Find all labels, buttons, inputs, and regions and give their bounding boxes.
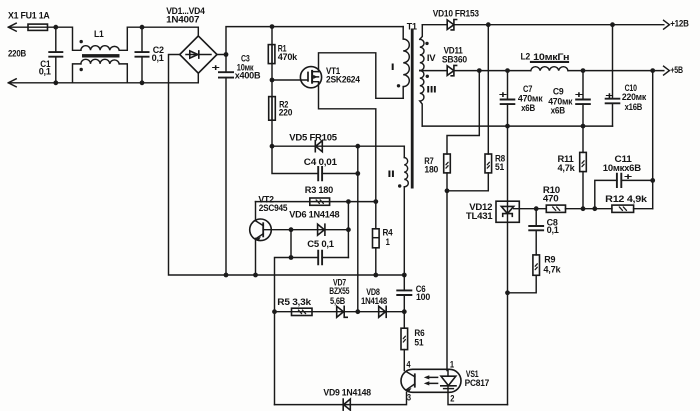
- label X1 FU1 1A: [8, 11, 50, 22]
- svg-text:4: 4: [406, 360, 411, 371]
- resistor R9: [508, 255, 540, 293]
- wire TL431 anode: [507, 222, 509, 404]
- wire pin1 riser: [446, 191, 448, 371]
- diode VD9: [343, 399, 350, 410]
- svg-text:220: 220: [279, 107, 292, 118]
- zener diode VD7: [337, 306, 348, 317]
- label C11 10mkx6V: [603, 154, 641, 174]
- resistor R3: [310, 198, 330, 205]
- svg-text:1N4007: 1N4007: [166, 15, 199, 26]
- junction R4 bottom: [373, 273, 378, 278]
- svg-text:R12 4,9k: R12 4,9k: [605, 194, 648, 205]
- svg-text:x6В: x6В: [551, 106, 566, 117]
- transformer T1 winding I: [403, 27, 409, 99]
- label winding I: [391, 62, 395, 73]
- label VD11 SB360: [442, 46, 467, 66]
- junction R3 right: [346, 199, 351, 204]
- svg-text:PC817: PC817: [465, 378, 490, 389]
- junction R11 bottom: [581, 206, 586, 211]
- capacitor C9: [548, 71, 591, 127]
- wire TL431 ref: [514, 208, 547, 210]
- junction C6 R6 node: [402, 309, 407, 314]
- svg-text:+: +: [624, 171, 633, 182]
- junction VD7 cathode: [355, 309, 360, 314]
- core L1: [82, 54, 120, 57]
- resistor R5: [292, 308, 313, 315]
- resistor R4: [373, 227, 394, 275]
- diode VD5: [315, 141, 322, 152]
- wire top input rail: [8, 27, 81, 50]
- junction VD5 left: [270, 144, 275, 149]
- svg-text:4,7k: 4,7k: [543, 265, 561, 276]
- core L2: [530, 61, 569, 63]
- svg-text:x400В: x400В: [235, 70, 261, 81]
- junction C11 left riser: [592, 206, 597, 211]
- wire +5V rail right: [568, 70, 664, 72]
- svg-text:+: +: [605, 91, 614, 102]
- junction rail winding II: [402, 273, 407, 278]
- transformer T1 winding II: [404, 146, 408, 275]
- wire C5 to bottom line: [275, 258, 292, 405]
- label C8 0,1: [547, 218, 560, 236]
- svg-text:180: 180: [424, 165, 438, 176]
- junction C8 ref: [534, 206, 539, 211]
- svg-text:VD9 1N4148: VD9 1N4148: [323, 388, 371, 399]
- capacitor C8: [528, 209, 544, 255]
- svg-text:VD5 FR105: VD5 FR105: [289, 132, 337, 143]
- label R10 470: [543, 185, 560, 205]
- svg-text:x6В: x6В: [521, 103, 535, 114]
- svg-text:+5В: +5В: [670, 65, 683, 76]
- wire L1 upper to C2: [119, 27, 198, 50]
- label 220V: [8, 49, 26, 60]
- label VD1...VD4 1N4007: [166, 6, 205, 26]
- junction base node: [289, 227, 294, 232]
- resistor R11: [580, 126, 587, 209]
- junction VD5 right: [355, 144, 360, 149]
- bridge rectifier VD1-VD4: [180, 36, 217, 73]
- junction C5 left: [289, 255, 294, 260]
- svg-text:2SC945: 2SC945: [259, 203, 288, 214]
- capacitor C10: [605, 25, 647, 126]
- svg-text:51: 51: [414, 338, 424, 349]
- label L2 10mkGn: [521, 52, 570, 63]
- wire feedback vertical: [357, 146, 359, 312]
- svg-text:0,1: 0,1: [152, 53, 165, 64]
- svg-text:3: 3: [407, 393, 411, 404]
- capacitor C3: [212, 53, 261, 275]
- svg-text:51: 51: [495, 162, 505, 173]
- label VD6 1N4148: [289, 210, 340, 221]
- core T1: [411, 29, 414, 189]
- label VD8 1N4148: [361, 287, 388, 307]
- svg-text:IV: IV: [427, 53, 436, 64]
- junction VD6 cathode: [346, 227, 351, 232]
- wire gate: [272, 79, 307, 81]
- connector arrow +12V: [664, 18, 689, 29]
- svg-text:+: +: [575, 90, 584, 101]
- transistor VT2: [250, 194, 288, 275]
- junction C4 right: [355, 171, 360, 176]
- polarity dot winding II: [398, 184, 401, 187]
- wire VT2 base line: [263, 229, 348, 231]
- svg-text:1: 1: [450, 360, 455, 371]
- junction VD11 output: [477, 68, 482, 73]
- svg-text:C5 0,1: C5 0,1: [307, 239, 334, 250]
- svg-text:L2: L2: [521, 52, 531, 63]
- label winding IV: [427, 53, 436, 64]
- junction R9 anode line: [505, 290, 510, 295]
- connector arrow +5V: [664, 65, 684, 76]
- svg-text:X1 FU1 1A: X1 FU1 1A: [8, 11, 50, 22]
- label pin 1: [450, 360, 455, 371]
- junction +12V R8: [486, 22, 491, 27]
- svg-text:VD10 FR153: VD10 FR153: [433, 8, 479, 19]
- junction C9 ground: [581, 124, 586, 129]
- capacitor C5: [291, 230, 348, 266]
- svg-text:5,6В: 5,6В: [330, 296, 345, 307]
- transformer T1 winding IV: [420, 25, 424, 71]
- junction C11 right: [650, 178, 655, 183]
- connector X1 arrow bottom: [8, 79, 16, 87]
- wire R5 VD7 VD8 line: [275, 311, 405, 313]
- polarity dot winding I: [397, 84, 400, 87]
- label pin 4: [406, 360, 411, 371]
- svg-text:II: II: [388, 169, 396, 180]
- svg-text:VD6 1N4148: VD6 1N4148: [289, 210, 340, 221]
- junction C2 top: [140, 25, 145, 30]
- label VD10 FR153: [433, 8, 479, 19]
- svg-text:0,1: 0,1: [547, 225, 560, 236]
- junction C3 bottom rail: [224, 273, 229, 278]
- junction R4 line: [373, 199, 378, 204]
- svg-text:4,7k: 4,7k: [558, 163, 576, 174]
- svg-text:470: 470: [543, 194, 559, 205]
- wire R3 line: [256, 201, 376, 203]
- label R5 3,3k: [277, 297, 311, 308]
- svg-text:470k: 470k: [278, 52, 298, 63]
- connector X1 arrow top: [8, 23, 16, 31]
- polarity dot L1 upper: [80, 40, 83, 43]
- resistor R6: [401, 312, 424, 371]
- svg-text:L1: L1: [94, 29, 104, 40]
- polarity dot L1 lower: [80, 68, 83, 71]
- svg-text:2SK2624: 2SK2624: [326, 75, 361, 86]
- wire VT1 source: [319, 82, 376, 229]
- svg-text:+: +: [499, 90, 508, 101]
- inductor L1 lower winding: [73, 59, 128, 83]
- wire bridge minus and primary ground rail: [169, 55, 405, 276]
- label winding II: [388, 169, 396, 180]
- junction C9 top: [581, 68, 586, 73]
- junction R7 R8 pin1: [445, 188, 450, 193]
- svg-text:1: 1: [386, 237, 391, 248]
- svg-text:+12В: +12В: [670, 18, 689, 29]
- wire VD9 bottom line: [275, 392, 407, 404]
- resistor R7: [444, 71, 480, 191]
- fuse FU1: [28, 24, 48, 30]
- label R12 4,9k: [605, 194, 648, 205]
- junction +12V C10: [610, 22, 615, 27]
- resistor R12: [612, 205, 653, 212]
- junction C7 top: [505, 68, 510, 73]
- wire secondary ground rail: [422, 125, 612, 127]
- label VD7 BZX55 5,6V: [329, 277, 350, 307]
- resistor R1: [268, 27, 298, 80]
- svg-text:+: +: [212, 63, 221, 74]
- label pin 3: [407, 393, 411, 404]
- svg-text:10мкx6В: 10мкx6В: [603, 163, 641, 174]
- svg-text:III: III: [426, 84, 437, 95]
- junction gate node: [270, 78, 275, 83]
- label VD12 TL431: [466, 202, 493, 222]
- label R11 4,7k: [558, 154, 576, 174]
- inductor L1 upper winding: [81, 46, 119, 51]
- diode VD10: [447, 20, 456, 30]
- label T1: [407, 21, 418, 32]
- capacitor C7: [499, 71, 543, 127]
- svg-text:1N4148: 1N4148: [361, 296, 388, 307]
- wire TL431 cathode: [507, 126, 509, 201]
- wire +5V rail left: [420, 70, 531, 72]
- label R7 180: [424, 156, 438, 176]
- label VD5 FR105: [289, 132, 337, 143]
- svg-text:2: 2: [450, 393, 454, 404]
- inductor L2: [531, 67, 568, 71]
- label VD9 1N4148: [323, 388, 371, 399]
- label R9 4,7k: [543, 255, 561, 276]
- svg-text:100: 100: [416, 292, 430, 303]
- wire pin2 to TL431 anode: [448, 392, 508, 404]
- wire R3 to C5 vertical: [347, 202, 349, 258]
- optocoupler VS1 PC817: [401, 369, 489, 393]
- wire +12V rail: [422, 24, 664, 26]
- svg-text:R3 180: R3 180: [305, 185, 333, 196]
- svg-text:0,1: 0,1: [39, 66, 52, 77]
- polarity dot winding III: [426, 75, 429, 78]
- svg-text:220В: 220В: [8, 49, 26, 60]
- wire R12 C11 to +5V: [652, 71, 654, 209]
- svg-text:C4 0,01: C4 0,01: [304, 157, 338, 168]
- capacitor C2: [135, 27, 165, 83]
- transistor VT1: [300, 66, 360, 88]
- svg-text:SB360: SB360: [442, 54, 467, 65]
- junction R1 top: [270, 24, 275, 29]
- label R8 51: [495, 154, 506, 173]
- capacitor C1: [39, 27, 64, 83]
- capacitor C4: [272, 146, 358, 181]
- diode VD11: [447, 65, 456, 75]
- junction bridge output: [224, 52, 229, 57]
- label winding III: [426, 84, 437, 95]
- wire VD5 line: [272, 145, 404, 147]
- junction C7 ground: [505, 124, 510, 129]
- label R3 180: [305, 185, 333, 196]
- junction VT2 emitter rail: [253, 273, 258, 278]
- diode VD8: [379, 306, 387, 317]
- junction C1 bottom: [53, 80, 58, 85]
- junction C2 bottom: [140, 80, 145, 85]
- svg-text:R5 3,3k: R5 3,3k: [277, 297, 311, 308]
- resistor R8: [447, 25, 492, 191]
- resistor R2: [269, 80, 292, 146]
- transformer T1 winding III: [420, 71, 424, 127]
- resistor R10: [546, 205, 612, 212]
- polarity dot winding IV: [425, 42, 428, 45]
- diode VD6: [318, 224, 325, 235]
- wire bottom input rail: [8, 73, 198, 83]
- svg-text:TL431: TL431: [466, 211, 493, 222]
- label L1: [94, 29, 104, 40]
- junction C1 top: [53, 25, 58, 30]
- wire VT1 drain to winding I: [319, 53, 404, 99]
- svg-text:x16В: x16В: [625, 102, 643, 113]
- wire bridge plus to top rail: [217, 27, 403, 55]
- shunt regulator VD12 TL431: [496, 201, 519, 222]
- capacitor C6: [396, 275, 430, 312]
- junction R5 line left: [272, 309, 277, 314]
- junction +5V sense: [650, 68, 655, 73]
- label pin 2: [450, 393, 454, 404]
- capacitor C11: [595, 171, 653, 208]
